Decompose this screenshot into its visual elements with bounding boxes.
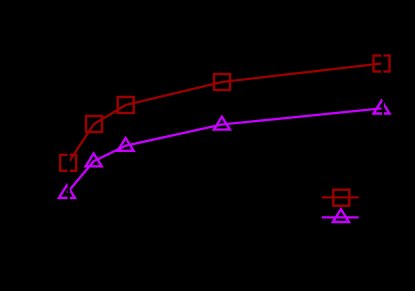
red series line	[68, 64, 381, 163]
magenta triangle marker 4	[214, 117, 230, 130]
red square marker 5	[374, 56, 390, 72]
red square marker 3	[118, 97, 134, 113]
left plot border (black, drawn over data)	[68, 31, 70, 253]
magenta triangle marker 3	[118, 138, 134, 151]
legend red square marker	[333, 190, 349, 206]
right plot border (black, drawn over data) upper segment	[381, 31, 383, 99]
red square marker 2	[86, 116, 102, 132]
right plot border (black, drawn over data) lower segment	[382, 101, 384, 253]
red square marker 1	[60, 155, 76, 171]
magenta triangle marker 1	[59, 185, 75, 198]
magenta triangle marker 2	[86, 154, 102, 167]
red square marker 4	[214, 74, 230, 90]
legend magenta triangle marker	[333, 209, 349, 222]
legend magenta sample line	[322, 216, 359, 218]
magenta triangle marker 5	[374, 101, 390, 114]
magenta series line	[67, 108, 381, 192]
legend red sample line	[322, 196, 359, 198]
